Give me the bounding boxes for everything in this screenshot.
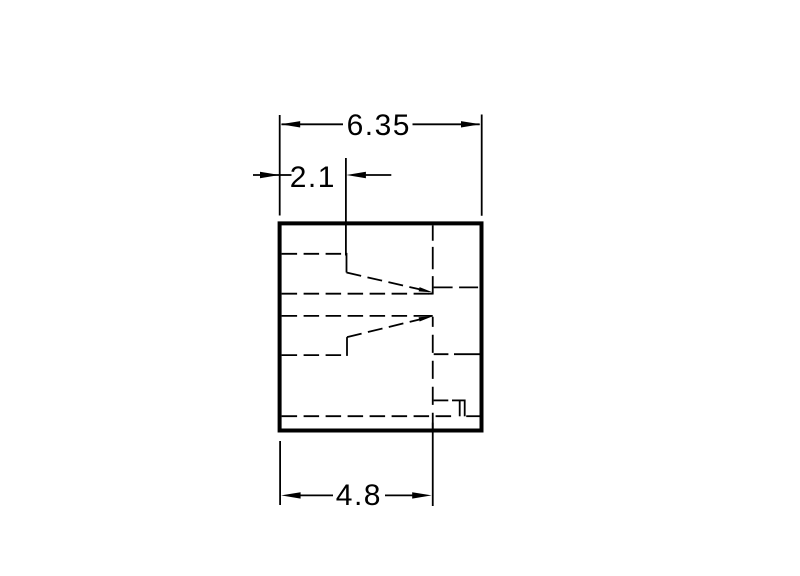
hidden diagonal lower (taper) [347,319,420,337]
hidden line A upper-left horizontal [282,253,347,255]
hidden line C mid-left horizontal lower [282,315,432,317]
hidden line E lower-left horizontal [282,354,347,356]
dimension 6.35 : right extension line [481,115,483,216]
dimension 2.1 : right arrowhead (points left) [346,172,366,178]
dimension 6.35 : left extension line [279,115,281,216]
hidden line G right upper horizontal [434,286,480,288]
hidden line F bottom horizontal [282,415,456,417]
svg-text:6.35: 6.35 [347,109,411,142]
hidden line C final dash [429,315,433,317]
hidden vertical line lower run [432,317,434,431]
polarity notch cap dash 2 [452,399,465,401]
hidden diagonal upper (taper) [347,273,421,290]
dimension 2.1 : right leader tail [366,174,392,176]
hidden line B final dash [429,293,433,295]
dimension 4.8 : right arrowhead [412,492,432,498]
dimension 2.1 : short dim segment [281,174,292,176]
dimension 2.1 : left arrowhead (points right) [260,172,280,178]
polarity notch left vertical [459,400,461,416]
dimension 4.8 : dimension line left segment [300,494,333,496]
dimension 6.35 : right arrowhead [461,121,481,127]
polarity notch cap dash 1 [434,399,449,401]
part body outline [280,223,482,430]
dimension 2.1 : left leader tail [253,174,279,176]
dimension 4.8 : left extension line [279,441,281,505]
hidden contour drop segment [346,253,348,273]
dimension 4.8 : dimension line right segment [385,494,413,496]
dimension 4.8 : right extension line [432,423,434,506]
bottom-right solid ledge [466,415,479,417]
hidden vertical line upper run [432,225,434,294]
dimension 2.1 : right extension line (extends into body) [345,158,347,256]
dimension 6.35 : dimension line left segment [282,123,344,125]
hidden contour rise segment [346,337,348,356]
lower taper arrowhead [419,316,433,321]
hidden line H right lower horizontal [434,353,480,355]
dimension 6.35 : dimension line right segment [413,123,480,125]
upper taper arrowhead [419,287,433,292]
hidden line B mid-left horizontal [282,293,432,295]
svg-text:4.8: 4.8 [336,479,382,512]
dimension 4.8 : left arrowhead [281,492,301,498]
dimension 6.35 : left arrowhead [281,121,301,127]
polarity notch right vertical [464,400,466,417]
svg-text:2.1: 2.1 [290,161,336,194]
